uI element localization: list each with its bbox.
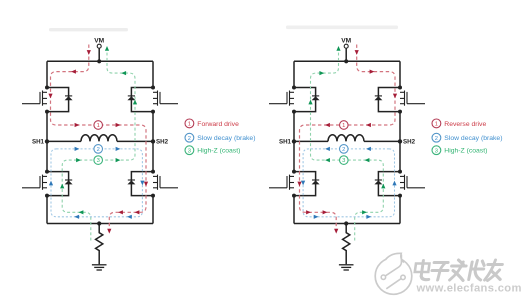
motor winding inductor (right bridge)	[328, 135, 364, 142]
svg-text:VM: VM	[94, 38, 104, 45]
low-side NMOS LS2 (right bridge): drain/source junction dots	[398, 170, 402, 174]
svg-text:SH1: SH1	[32, 139, 45, 146]
red path arrowheads (left bridge)	[87, 50, 91, 55]
high-side NMOS HS2 (right bridge): body diode (pointing up)	[374, 96, 382, 100]
high-side NMOS HS2 (right bridge): NMOS symbol	[400, 91, 425, 106]
bottom rail wire (left bridge)	[47, 223, 153, 225]
node: sense junction on bottom rail (left bridge)	[97, 221, 101, 225]
wire left branch: rail to HS1 (left bridge)	[46, 61, 48, 87]
node SH1 (left bridge)	[45, 139, 49, 143]
svg-text:High-Z (coast): High-Z (coast)	[197, 148, 240, 155]
watermark brand text (stylized CJK strokes)	[414, 260, 503, 281]
VM terminal circle (left bridge)	[97, 44, 101, 48]
watermark logo via pads	[381, 275, 385, 279]
low-side NMOS LS1 (right bridge): body diode (pointing up)	[312, 180, 320, 184]
svg-text:Slow decay (brake): Slow decay (brake)	[197, 135, 255, 142]
svg-text:High-Z (coast): High-Z (coast)	[444, 148, 487, 155]
node SH2 (right bridge)	[398, 139, 402, 143]
high-side NMOS HS2 (left bridge): drain/source junction dots	[151, 86, 155, 90]
wire SH1 to LS1 (left bridge)	[46, 141, 48, 171]
watermark logo droplet tip	[386, 253, 404, 262]
current path 2: slow decay brake loop (blue dashed) (left bridge)	[51, 149, 142, 217]
svg-text:VM: VM	[341, 38, 351, 45]
node: VM junction on top rail (left bridge)	[97, 59, 101, 63]
current path 1: forward drive (red dashed) (left bridge)	[51, 45, 147, 230]
svg-text:1: 1	[188, 122, 191, 128]
low-side NMOS LS2 (right bridge): NMOS symbol	[400, 175, 425, 190]
wire LS1 to bottom rail (right bridge)	[293, 196, 295, 224]
high-side NMOS HS2 (left bridge): body-diode loop	[131, 88, 153, 112]
wire motor to SH2 (left bridge)	[117, 140, 153, 142]
high-side NMOS HS1 (left bridge): drain/source junction dots	[45, 86, 49, 90]
svg-text:SH1: SH1	[279, 139, 292, 146]
svg-text:2: 2	[435, 136, 438, 142]
node SH2 (left bridge)	[151, 139, 155, 143]
wire HS1 to SH1 (left bridge)	[46, 112, 48, 142]
VM terminal circle (right bridge)	[344, 44, 348, 48]
wire right branch: rail to HS2 (right bridge)	[399, 61, 401, 87]
low-side NMOS LS2 (left bridge): NMOS symbol	[153, 175, 178, 190]
svg-text:2: 2	[342, 147, 345, 153]
svg-text:3: 3	[435, 148, 438, 154]
wire SH2 to LS2 (right bridge)	[399, 141, 401, 171]
low-side NMOS LS2 (left bridge): body-diode loop	[131, 172, 153, 196]
node: sense junction on bottom rail (right bridge)	[344, 221, 348, 225]
elecfans watermark logo disc	[375, 258, 412, 295]
node SH1 (right bridge)	[292, 139, 296, 143]
low-side NMOS LS1 (left bridge): drain/source junction dots	[45, 170, 49, 174]
svg-text:3: 3	[97, 158, 100, 164]
svg-text:3: 3	[188, 148, 191, 154]
wire SH1 to motor (right bridge)	[294, 140, 328, 142]
low-side NMOS LS2 (left bridge): drain/source junction dots	[151, 170, 155, 174]
faint scan ghost streak top-right	[286, 26, 398, 30]
wire HS1 to SH1 (right bridge)	[293, 112, 295, 142]
high-side NMOS HS1 (left bridge): NMOS symbol	[22, 91, 47, 106]
ground symbol (right bridge)	[339, 265, 354, 270]
wire LS2 to bottom rail (right bridge)	[399, 196, 401, 224]
sense resistor (right bridge)	[343, 224, 350, 265]
motor winding inductor (left bridge)	[81, 135, 117, 142]
ground symbol (left bridge)	[92, 265, 107, 270]
svg-text:www.elecfans.com: www.elecfans.com	[416, 282, 522, 294]
circled 2 marker on blue path (left bridge)	[94, 145, 103, 154]
low-side NMOS LS1 (left bridge): body diode (pointing up)	[65, 180, 73, 184]
svg-text:SH2: SH2	[403, 139, 416, 146]
legend item 2: Slow decay (brake) (right)	[432, 133, 441, 142]
wire VM to top rail (right bridge)	[345, 48, 347, 61]
blue path arrowheads (left bridge)	[75, 147, 80, 151]
wire SH1 to LS1 (right bridge)	[293, 141, 295, 171]
low-side NMOS LS1 (right bridge): drain/source junction dots	[292, 170, 296, 174]
svg-text:1: 1	[97, 123, 100, 129]
high-side NMOS HS2 (right bridge): drain/source junction dots	[398, 86, 402, 90]
current path 1: reverse drive (red dashed) (right bridge)	[300, 45, 396, 230]
high-side NMOS HS2 (left bridge): NMOS symbol	[153, 91, 178, 106]
legend item 3: High-Z (coast) (right)	[432, 146, 441, 155]
top rail wire (left bridge)	[47, 60, 153, 62]
current path 2: slow decay brake loop (blue dashed) (right bridge)	[303, 149, 394, 217]
svg-text:1: 1	[342, 123, 345, 129]
circled 3 marker on green path (right bridge)	[340, 156, 349, 165]
faint scan ghost streak top-left	[49, 28, 128, 31]
high-side NMOS HS1 (right bridge): drain/source junction dots	[292, 86, 296, 90]
blue path arrowheads (right bridge)	[366, 147, 371, 151]
svg-text:3: 3	[342, 158, 345, 164]
circled 3 marker on green path (left bridge)	[94, 156, 103, 165]
legend item 3: High-Z (coast) (left)	[185, 146, 194, 155]
wire VM to top rail (left bridge)	[98, 48, 100, 61]
wire SH2 to LS2 (left bridge)	[152, 141, 154, 171]
svg-text:2: 2	[97, 147, 100, 153]
node: VM junction on top rail (right bridge)	[344, 59, 348, 63]
low-side NMOS LS1 (right bridge): body-diode loop	[294, 172, 316, 196]
wire LS2 to bottom rail (left bridge)	[152, 196, 154, 224]
low-side NMOS LS1 (left bridge): NMOS symbol	[22, 175, 47, 190]
svg-text:Forward drive: Forward drive	[197, 121, 239, 128]
low-side NMOS LS1 (left bridge): body-diode loop	[47, 172, 69, 196]
high-side NMOS HS2 (left bridge): body diode (pointing up)	[127, 96, 135, 100]
low-side NMOS LS2 (right bridge): body-diode loop	[378, 172, 400, 196]
high-side NMOS HS1 (right bridge): NMOS symbol	[269, 91, 294, 106]
top rail wire (right bridge)	[294, 60, 400, 62]
watermark logo trace to tip	[386, 255, 402, 276]
wire HS2 to SH2 (left bridge)	[152, 112, 154, 142]
svg-text:Reverse drive: Reverse drive	[444, 121, 486, 128]
current path 3: high-Z coast (green dashed) (right bridge)	[311, 50, 384, 241]
green path arrowheads (right bridge)	[362, 210, 367, 214]
circled 2 marker on blue path (right bridge)	[340, 145, 349, 154]
circled 1 marker on red path (right bridge)	[340, 121, 349, 130]
bottom rail wire (right bridge)	[294, 223, 400, 225]
high-side NMOS HS1 (left bridge): body-diode loop	[47, 88, 69, 112]
legend item 2: Slow decay (brake) (left)	[185, 133, 194, 142]
svg-text:SH2: SH2	[156, 139, 169, 146]
svg-text:1: 1	[435, 122, 438, 128]
wire HS2 to SH2 (right bridge)	[399, 112, 401, 142]
high-side NMOS HS2 (right bridge): body-diode loop	[378, 88, 400, 112]
wire left branch: rail to HS1 (right bridge)	[293, 61, 295, 87]
wire motor to SH2 (right bridge)	[364, 140, 400, 142]
sense resistor (left bridge)	[96, 224, 103, 265]
circled 1 marker on red path (left bridge)	[94, 121, 103, 130]
wire LS1 to bottom rail (left bridge)	[46, 196, 48, 224]
high-side NMOS HS1 (left bridge): body diode (pointing up)	[65, 96, 73, 100]
legend item 1: Reverse drive (right)	[432, 119, 441, 128]
watermark logo trace to rim	[386, 279, 401, 289]
wire right branch: rail to HS2 (left bridge)	[152, 61, 154, 87]
current path 3: high-Z coast (green dashed) (left bridge)	[62, 50, 135, 241]
legend item 1: Forward drive (left)	[185, 119, 194, 128]
high-side NMOS HS1 (right bridge): body diode (pointing up)	[312, 96, 320, 100]
high-side NMOS HS1 (right bridge): body-diode loop	[294, 88, 316, 112]
low-side NMOS LS2 (left bridge): body diode (pointing up)	[127, 180, 135, 184]
svg-text:Slow decay (brake): Slow decay (brake)	[444, 135, 502, 142]
green path arrowheads (left bridge)	[79, 210, 84, 214]
wire SH1 to motor (left bridge)	[47, 140, 81, 142]
low-side NMOS LS2 (right bridge): body diode (pointing up)	[374, 180, 382, 184]
svg-text:2: 2	[188, 136, 191, 142]
red path arrowheads (right bridge)	[355, 50, 359, 55]
low-side NMOS LS1 (right bridge): NMOS symbol	[269, 175, 294, 190]
